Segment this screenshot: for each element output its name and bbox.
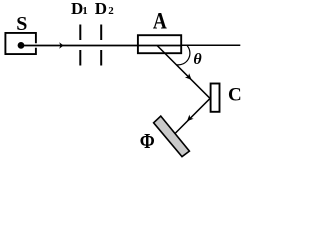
- slit D1 (diaphragm): [79, 25, 81, 66]
- svg-text:D1: D1: [71, 0, 88, 18]
- source dot: [18, 42, 25, 49]
- wire: scattered ray A to C: [157, 46, 210, 99]
- beam arrowhead: [59, 42, 63, 48]
- wire: diffracted ray C to plate: [175, 99, 210, 134]
- source box S: [5, 33, 36, 54]
- slit D2 (diaphragm): [100, 25, 102, 66]
- photographic plate (Phi): [154, 116, 190, 157]
- diffracted ray arrowhead: [187, 115, 194, 122]
- crystal C: [211, 84, 220, 112]
- wire: primary beam from source through A to straight-through end: [21, 44, 240, 46]
- svg-text:D2: D2: [95, 0, 114, 18]
- svg-text:S: S: [16, 13, 27, 35]
- svg-text:A: A: [153, 8, 168, 34]
- scattered ray arrowhead: [185, 73, 192, 80]
- angle arc: [176, 46, 190, 65]
- scatterer box A: [138, 35, 181, 53]
- svg-text:θ: θ: [193, 51, 202, 68]
- svg-text:Φ: Φ: [140, 131, 155, 154]
- svg-text:C: C: [228, 84, 242, 105]
